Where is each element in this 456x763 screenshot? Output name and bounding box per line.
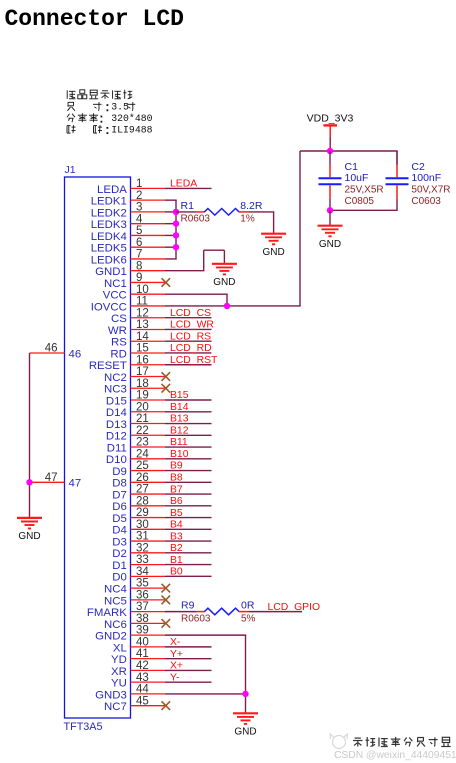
svg-text:46: 46	[69, 348, 82, 360]
svg-text:12: 12	[136, 307, 149, 319]
wire pin 32 net B2	[165, 552, 212, 554]
svg-text:RS: RS	[111, 337, 127, 349]
svg-text:ILI9488: ILI9488	[111, 124, 152, 135]
pin 21 D13	[106, 413, 165, 431]
svg-text:B0: B0	[170, 567, 183, 578]
svg-text:100nF: 100nF	[411, 172, 441, 184]
svg-text:FMARK: FMARK	[87, 607, 127, 619]
svg-text:B3: B3	[170, 531, 183, 542]
wire pin 30 net B4	[165, 528, 212, 530]
svg-text:GND: GND	[262, 247, 284, 258]
svg-text:YD: YD	[111, 654, 127, 666]
watermark text	[353, 737, 451, 747]
pin 38 NC6	[104, 613, 165, 631]
pin 8 GND1	[95, 260, 165, 278]
svg-text:LCD_RS: LCD_RS	[170, 331, 211, 342]
svg-text:29: 29	[136, 507, 149, 519]
svg-text:IOVCC: IOVCC	[91, 301, 127, 313]
svg-text:50V,X7R: 50V,X7R	[411, 185, 450, 196]
no-connect pin 38	[162, 619, 171, 628]
svg-text:CS: CS	[111, 313, 127, 325]
capacitor C2 100nF	[386, 151, 451, 210]
pin 12 CS	[111, 307, 165, 325]
wire pin 41 net Y+	[165, 658, 212, 660]
pin 27 D7	[112, 484, 165, 502]
pin 33 D1	[112, 554, 165, 572]
pin 2 LEDK1	[91, 190, 165, 208]
svg-text:GND1: GND1	[95, 266, 127, 278]
junction LEDK bus pin 5	[173, 232, 179, 238]
resistor R1 8.2R	[181, 200, 263, 225]
pin 35 NC4	[104, 578, 165, 596]
wire pin 28 net B6	[165, 505, 212, 507]
pin 15 RD	[110, 343, 165, 361]
svg-text:J1: J1	[65, 164, 76, 176]
svg-text:10: 10	[136, 284, 149, 296]
junction LEDK bus pin 6	[173, 244, 179, 250]
svg-text:LCD_WR: LCD_WR	[170, 320, 214, 331]
svg-text:43: 43	[136, 672, 149, 684]
pin 29 D5	[112, 507, 165, 525]
svg-text:15: 15	[136, 343, 149, 355]
svg-text:D9: D9	[112, 466, 127, 478]
svg-text:D5: D5	[112, 513, 127, 525]
svg-text:47: 47	[69, 478, 82, 490]
wire pin 13 net LCD_WR	[165, 328, 212, 330]
junction pin 47	[26, 479, 32, 485]
svg-text:17: 17	[136, 366, 149, 378]
svg-text:LEDK2: LEDK2	[91, 207, 127, 219]
wire pin 27 net B7	[165, 493, 212, 495]
wire pin 33 net B1	[165, 564, 212, 566]
svg-text:X-: X-	[170, 637, 180, 648]
svg-text:B12: B12	[170, 425, 189, 436]
svg-text:D2: D2	[112, 548, 127, 560]
junction GND3	[242, 691, 248, 697]
svg-text:Y+: Y+	[170, 649, 183, 660]
no-connect pin 36	[162, 596, 171, 605]
pin 40 XL	[113, 636, 165, 654]
svg-text:NC4: NC4	[104, 584, 127, 596]
svg-text:GND: GND	[18, 531, 40, 542]
svg-text:LEDK4: LEDK4	[91, 231, 127, 243]
svg-text:B2: B2	[170, 543, 183, 554]
svg-text:2: 2	[136, 190, 142, 202]
wire pin 15 net LCD_RD	[165, 352, 212, 354]
svg-text:36: 36	[136, 589, 149, 601]
svg-text:3: 3	[136, 202, 142, 214]
resistor R9 0R	[181, 600, 256, 625]
pin 47 (left)	[30, 472, 82, 490]
pin 19 D15	[106, 390, 165, 408]
wire IOVCC pin 11 to rail	[165, 151, 301, 306]
svg-text:38: 38	[136, 613, 149, 625]
wire GND2 pin 39	[165, 635, 246, 713]
wire pin 43 net Y-	[165, 681, 212, 683]
wire pin 23 net B11	[165, 446, 212, 448]
wire bus to R1	[176, 211, 197, 213]
wire R9 output	[249, 611, 302, 613]
svg-text:1: 1	[136, 178, 142, 190]
pin 20 D14	[106, 401, 165, 419]
wire pin 19 net B15	[165, 399, 212, 401]
pin 14 RS	[111, 331, 165, 349]
pin 34 D0	[112, 566, 165, 584]
wire pin 42 net X+	[165, 669, 212, 671]
svg-text:B14: B14	[170, 402, 189, 413]
pin 13 WR	[108, 319, 165, 337]
svg-text:11: 11	[136, 296, 148, 308]
pin 10 VCC	[103, 284, 165, 302]
svg-text:LCD_CS: LCD_CS	[170, 308, 211, 319]
svg-text:33: 33	[136, 554, 149, 566]
svg-text:R1: R1	[181, 200, 195, 212]
wire pin 31 net B3	[165, 540, 212, 542]
pin 5 LEDK4	[91, 225, 165, 243]
svg-text:18: 18	[136, 378, 149, 390]
svg-text:3.5: 3.5	[111, 102, 129, 113]
svg-text:13: 13	[136, 319, 149, 331]
svg-text:R0603: R0603	[181, 214, 211, 225]
pin 28 D6	[112, 495, 165, 513]
pin 46 (left)	[30, 343, 82, 361]
pin 36 NC5	[104, 589, 165, 607]
wire pin 22 net B12	[165, 434, 212, 436]
no-connect pin 17	[162, 372, 171, 381]
svg-text:NC3: NC3	[104, 384, 127, 396]
pin 11 IOVCC	[91, 296, 165, 314]
svg-text:40: 40	[136, 636, 149, 648]
junction VCC/IOVCC	[224, 303, 230, 309]
pin 9 NC1	[104, 272, 165, 290]
svg-text:B1: B1	[170, 555, 183, 566]
svg-text:39: 39	[136, 625, 149, 637]
pin 6 LEDK5	[91, 237, 165, 255]
svg-text:WR: WR	[108, 325, 127, 337]
ground bottom	[233, 712, 258, 714]
wire FMARK pin 37 to R9	[165, 611, 197, 613]
svg-text:XL: XL	[113, 642, 127, 654]
svg-text:24: 24	[136, 448, 149, 460]
ground under C1	[329, 210, 331, 226]
svg-text:RESET: RESET	[89, 360, 127, 372]
pin 26 D8	[112, 472, 165, 490]
pin 16 RESET	[89, 354, 165, 372]
svg-text:47: 47	[45, 472, 58, 484]
svg-text:25V,X5R: 25V,X5R	[345, 185, 384, 196]
no-connect pin 35	[162, 584, 171, 593]
junction LEDK bus pin 3	[173, 209, 179, 215]
svg-text:D8: D8	[112, 478, 127, 490]
svg-text:LEDA: LEDA	[170, 179, 197, 190]
wire R1 to ground	[249, 211, 274, 213]
svg-text:B11: B11	[170, 437, 188, 448]
svg-text:5%: 5%	[241, 614, 256, 625]
ground left	[17, 517, 42, 519]
svg-text:B5: B5	[170, 508, 183, 519]
svg-text:19: 19	[136, 390, 149, 402]
wire pin 12 net LCD_CS	[165, 317, 212, 319]
svg-text:LCD_GPIO: LCD_GPIO	[268, 602, 321, 613]
svg-text:46: 46	[45, 343, 58, 355]
svg-text:44: 44	[136, 684, 149, 696]
wire pin 14 net LCD_RS	[165, 340, 212, 342]
wire pin 21 net B13	[165, 423, 212, 425]
wire pin 1 net LEDA	[165, 187, 212, 189]
pin 1 LEDA	[97, 178, 165, 196]
svg-text:D15: D15	[106, 395, 127, 407]
no-connect pin 45	[162, 701, 171, 710]
svg-text:D3: D3	[112, 536, 127, 548]
svg-text:D6: D6	[112, 501, 127, 513]
svg-text:D14: D14	[106, 407, 127, 419]
wire GND1 pin 8	[165, 250, 224, 270]
svg-text:37: 37	[136, 601, 149, 613]
svg-text:8: 8	[136, 260, 142, 272]
svg-text:VCC: VCC	[103, 290, 127, 302]
svg-text:Connector LCD: Connector LCD	[5, 6, 184, 32]
svg-text:LCD_RST: LCD_RST	[170, 355, 218, 366]
svg-text:LEDK1: LEDK1	[91, 196, 127, 208]
svg-text:YU: YU	[111, 678, 127, 690]
svg-text:1%: 1%	[240, 214, 255, 225]
svg-text:X+: X+	[170, 661, 183, 672]
svg-text:C0603: C0603	[411, 196, 441, 207]
wire pin 46/47 to ground	[29, 353, 31, 517]
pin 18 NC3	[104, 378, 165, 396]
svg-text:B15: B15	[170, 390, 189, 401]
wire pin 34 net B0	[165, 575, 212, 577]
svg-text:VDD_3V3: VDD_3V3	[307, 112, 354, 124]
svg-text:22: 22	[136, 425, 149, 437]
note LCD module spec (Chinese)	[67, 90, 153, 136]
svg-text:B10: B10	[170, 449, 189, 460]
svg-text:LEDK6: LEDK6	[91, 254, 127, 266]
svg-text:GND: GND	[234, 727, 256, 738]
svg-text:TFT3A5: TFT3A5	[64, 721, 103, 733]
pin 42 XR	[111, 660, 165, 678]
svg-text:27: 27	[136, 484, 149, 496]
wire pin 40 net X-	[165, 646, 212, 648]
pin 23 D11	[107, 437, 165, 455]
pin 24 D10	[106, 448, 165, 466]
svg-text:GND: GND	[213, 277, 235, 288]
wire VCC pin 10	[165, 294, 228, 306]
pin 22 D12	[106, 425, 165, 443]
wire pin 20 net B14	[165, 411, 212, 413]
no-connect pin 18	[162, 384, 171, 393]
wire GND3 pin 44	[165, 693, 246, 695]
svg-text:5: 5	[136, 225, 142, 237]
svg-text:31: 31	[136, 531, 149, 543]
svg-text:NC6: NC6	[104, 619, 127, 631]
svg-text:26: 26	[136, 472, 149, 484]
wire pin 29 net B5	[165, 517, 212, 519]
svg-text:45: 45	[136, 695, 149, 707]
svg-text:LCD_RD: LCD_RD	[170, 343, 212, 354]
pin 3 LEDK2	[91, 202, 165, 220]
svg-text:LEDK5: LEDK5	[91, 243, 127, 255]
pin 37 FMARK	[87, 601, 165, 619]
pin 39 GND2	[95, 625, 165, 643]
svg-text:D4: D4	[112, 525, 127, 537]
pin 41 YD	[111, 648, 165, 666]
svg-text:7: 7	[136, 249, 142, 261]
svg-text:B7: B7	[170, 484, 183, 495]
wire caps bottom	[330, 209, 398, 211]
wire LEDK bus verticals	[165, 200, 177, 259]
junction C1 bottom	[327, 207, 333, 213]
svg-text:30: 30	[136, 519, 149, 531]
svg-text:GND2: GND2	[95, 631, 127, 643]
svg-text:8.2R: 8.2R	[240, 200, 263, 212]
svg-text:14: 14	[136, 331, 149, 343]
svg-text:C2: C2	[411, 161, 425, 173]
ground at pin 8	[223, 250, 225, 264]
svg-text:32: 32	[136, 542, 149, 554]
svg-text:NC1: NC1	[104, 278, 127, 290]
svg-text:GND3: GND3	[95, 689, 127, 701]
svg-text:25: 25	[136, 460, 149, 472]
svg-text:B8: B8	[170, 473, 183, 484]
wire pin 24 net B10	[165, 458, 212, 460]
svg-text:B13: B13	[170, 414, 189, 425]
svg-text:16: 16	[136, 354, 149, 366]
pin 4 LEDK3	[91, 213, 165, 231]
capacitor C1 10uF	[319, 151, 384, 210]
wire pin 26 net B8	[165, 481, 212, 483]
svg-text:9: 9	[136, 272, 142, 284]
svg-text:0R: 0R	[241, 600, 255, 612]
svg-text:D0: D0	[112, 572, 127, 584]
svg-text:D13: D13	[106, 419, 127, 431]
svg-text:XR: XR	[111, 666, 127, 678]
pin 43 YU	[111, 672, 165, 690]
svg-text:6: 6	[136, 237, 142, 249]
pin 7 LEDK6	[91, 249, 165, 267]
svg-text:41: 41	[136, 648, 149, 660]
svg-text:34: 34	[136, 566, 149, 578]
ground under R1	[261, 233, 286, 235]
svg-text:28: 28	[136, 495, 149, 507]
watermark logo	[330, 734, 348, 749]
junction LEDK bus pin 4	[173, 220, 179, 226]
pin 31 D3	[112, 531, 165, 549]
junction rail C1	[327, 148, 333, 154]
pin 30 D4	[112, 519, 165, 537]
svg-text:NC5: NC5	[104, 595, 127, 607]
svg-text:42: 42	[136, 660, 149, 672]
wire pin 25 net B9	[165, 470, 212, 472]
svg-text:35: 35	[136, 578, 149, 590]
svg-text:Y-: Y-	[170, 672, 179, 683]
svg-text:C0805: C0805	[345, 196, 375, 207]
svg-text:D10: D10	[106, 454, 127, 466]
svg-text:LEDK3: LEDK3	[91, 219, 127, 231]
svg-text:LEDA: LEDA	[97, 184, 127, 196]
pin 32 D2	[112, 542, 165, 560]
svg-text:4: 4	[136, 213, 143, 225]
svg-text:D11: D11	[107, 442, 127, 454]
svg-text:D1: D1	[112, 560, 127, 572]
svg-text:NC2: NC2	[104, 372, 127, 384]
svg-text:GND: GND	[319, 239, 341, 250]
svg-text:NC7: NC7	[104, 701, 127, 713]
svg-text:D12: D12	[106, 431, 127, 443]
svg-text:C1: C1	[345, 161, 359, 173]
svg-text:B6: B6	[170, 496, 183, 507]
wire pin 16 net LCD_RST	[165, 364, 212, 366]
no-connect pin 9	[162, 278, 171, 287]
pin 17 NC2	[104, 366, 165, 384]
svg-text:R9: R9	[181, 600, 195, 612]
svg-text:20: 20	[136, 401, 149, 413]
pin 25 D9	[112, 460, 165, 478]
svg-text:R0603: R0603	[181, 614, 211, 625]
connector J1 body	[65, 177, 131, 718]
svg-text:21: 21	[136, 413, 149, 425]
power port VDD_3V3	[307, 112, 354, 151]
svg-text:D7: D7	[112, 489, 127, 501]
pin 44 GND3	[95, 684, 165, 702]
pin 45 NC7	[104, 695, 165, 713]
svg-text:B9: B9	[170, 461, 183, 472]
svg-text:RD: RD	[110, 348, 126, 360]
wire VDD rail	[300, 150, 398, 152]
svg-text:23: 23	[136, 437, 149, 449]
svg-text:CSDN @weixin_44409451: CSDN @weixin_44409451	[334, 750, 456, 761]
svg-text:320*480: 320*480	[111, 113, 152, 124]
svg-text:B4: B4	[170, 520, 183, 531]
svg-text:10uF: 10uF	[345, 172, 369, 184]
